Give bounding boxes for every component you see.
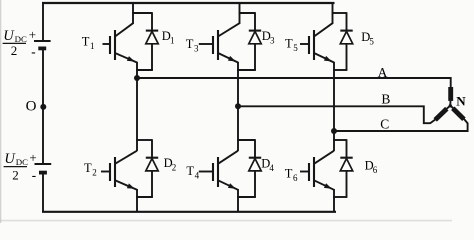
- IGBT T1: [103, 23, 138, 62]
- wire collector drop of T1 from top rail: [132, 2, 134, 24]
- svg-text:-: -: [32, 168, 36, 183]
- svg-text:2: 2: [92, 168, 97, 178]
- wire emitter of T2 down to bottom rail: [136, 189, 138, 213]
- label T6: [285, 166, 298, 183]
- wire phase node down to T6 collector: [333, 130, 335, 151]
- node N (star point): [449, 104, 452, 107]
- wire diode D4 bottom to leg: [237, 196, 256, 198]
- svg-text:4: 4: [269, 163, 274, 173]
- svg-text:T: T: [186, 37, 194, 51]
- value label U_DC/2 (upper source): [3, 28, 27, 58]
- svg-text:2: 2: [11, 43, 17, 58]
- svg-text:4: 4: [195, 171, 200, 181]
- wire emitter of T6 down to bottom rail: [333, 189, 335, 213]
- wire branch to diode D6 top: [333, 139, 346, 141]
- wire diode D1 bottom to leg: [136, 69, 153, 71]
- wire collector drop of T5 from top rail: [332, 2, 334, 24]
- label T3: [186, 37, 199, 54]
- wire branch to diode D2 top: [136, 139, 152, 141]
- label D3: [262, 29, 275, 46]
- svg-text:O: O: [26, 99, 37, 115]
- label node N: [456, 93, 466, 108]
- svg-text:N: N: [456, 93, 466, 108]
- node phase B junction dot: [235, 103, 241, 109]
- svg-text:6: 6: [293, 173, 298, 183]
- wire phase B output: [238, 106, 430, 123]
- svg-text:2: 2: [12, 167, 19, 182]
- svg-text:U: U: [3, 28, 15, 44]
- wire emitter of T1 down to phase node: [136, 62, 138, 79]
- svg-text:1: 1: [170, 36, 175, 46]
- svg-text:5: 5: [369, 37, 374, 47]
- svg-text:T: T: [186, 164, 194, 178]
- battery E1 (U_DC/2 upper): [34, 41, 51, 48]
- wire emitter of T4 down to bottom rail: [237, 189, 239, 213]
- wire left DC bus upper segment: [42, 2, 44, 41]
- wire emitter of T5 down to phase node: [333, 62, 335, 132]
- wire left DC bus middle segment: [42, 48, 44, 164]
- wire branch to diode D3 top: [239, 12, 255, 14]
- svg-text:U: U: [4, 151, 16, 167]
- node phase C junction dot: [331, 128, 337, 134]
- svg-text:6: 6: [373, 165, 378, 175]
- label T2: [84, 161, 97, 178]
- battery E2 (U_DC/2 lower): [35, 164, 52, 173]
- label battery E1 polarity -: [31, 44, 35, 59]
- IGBT T2: [101, 151, 137, 190]
- label battery E2 polarity -: [32, 168, 36, 183]
- svg-text:T: T: [84, 161, 92, 175]
- label T4: [186, 164, 199, 181]
- wire phase C output: [334, 123, 468, 131]
- label D2: [164, 156, 177, 173]
- label phase C: [380, 116, 389, 131]
- node O (DC midpoint junction dot): [40, 104, 46, 110]
- wire left DC bus lower segment: [42, 173, 44, 213]
- scan artifact: bottom shadow: [0, 220, 452, 222]
- svg-text:3: 3: [194, 44, 199, 54]
- svg-text:C: C: [380, 116, 389, 131]
- wire diode D2 bottom to leg: [136, 196, 153, 198]
- label battery E2 polarity +: [29, 150, 36, 165]
- diode D5 (anti-parallel with T5): [340, 12, 352, 70]
- svg-text:2: 2: [172, 162, 177, 172]
- diode D1 (anti-parallel with T1): [146, 12, 158, 70]
- wire bottom DC rail: [42, 211, 336, 213]
- label phase B: [381, 91, 390, 106]
- diode D6 (anti-parallel with T6): [340, 139, 352, 197]
- wire emitter of T3 down to phase node: [237, 62, 239, 108]
- label battery E1 polarity +: [29, 27, 36, 42]
- svg-text:T: T: [82, 34, 90, 48]
- wire diode D3 bottom to leg: [237, 69, 256, 71]
- svg-text:DC: DC: [16, 157, 28, 167]
- wire diode D5 bottom to leg: [333, 69, 347, 71]
- svg-text:T: T: [285, 166, 293, 180]
- svg-text:B: B: [381, 91, 390, 106]
- label T5: [285, 37, 298, 54]
- wire collector drop of T3 from top rail: [239, 2, 241, 24]
- IGBT T6: [300, 151, 334, 190]
- node phase A junction dot: [134, 75, 140, 81]
- IGBT T3: [199, 23, 240, 62]
- wire diode D6 bottom to leg: [333, 196, 347, 198]
- svg-text:-: -: [31, 44, 35, 59]
- wire phase A output: [137, 78, 451, 87]
- wire phase node down to T4 collector: [237, 105, 239, 151]
- scan artifact: left edge shadow: [0, 0, 2, 223]
- inductor winding phase A (load): [448, 87, 453, 106]
- wire branch to diode D5 top: [332, 12, 347, 14]
- inductor winding phase C (load): [450, 106, 467, 124]
- svg-text:5: 5: [293, 43, 298, 53]
- svg-text:+: +: [29, 150, 36, 165]
- label phase A: [378, 65, 388, 80]
- label D6: [365, 158, 378, 175]
- wire top DC rail: [42, 2, 335, 4]
- label D1: [162, 29, 175, 46]
- svg-text:1: 1: [90, 41, 95, 51]
- label D4: [261, 156, 274, 173]
- diode D3 (anti-parallel with T3): [249, 12, 261, 70]
- svg-text:3: 3: [270, 36, 275, 46]
- wire branch to diode D1 top: [132, 12, 152, 14]
- IGBT T4: [199, 151, 238, 190]
- diode D2 (anti-parallel with T2): [146, 139, 158, 197]
- label D5: [361, 30, 374, 47]
- inductor winding phase B (load): [430, 106, 450, 124]
- label T1: [82, 34, 95, 51]
- label node O: [26, 99, 37, 115]
- svg-text:T: T: [285, 37, 293, 51]
- svg-text:+: +: [29, 27, 36, 42]
- wire phase node down to T2 collector: [136, 77, 138, 151]
- IGBT T5: [300, 23, 334, 62]
- value label U_DC/2 (lower source): [4, 151, 29, 182]
- svg-text:A: A: [378, 65, 388, 80]
- wire branch to diode D4 top: [237, 139, 255, 141]
- diode D4 (anti-parallel with T4): [249, 139, 261, 197]
